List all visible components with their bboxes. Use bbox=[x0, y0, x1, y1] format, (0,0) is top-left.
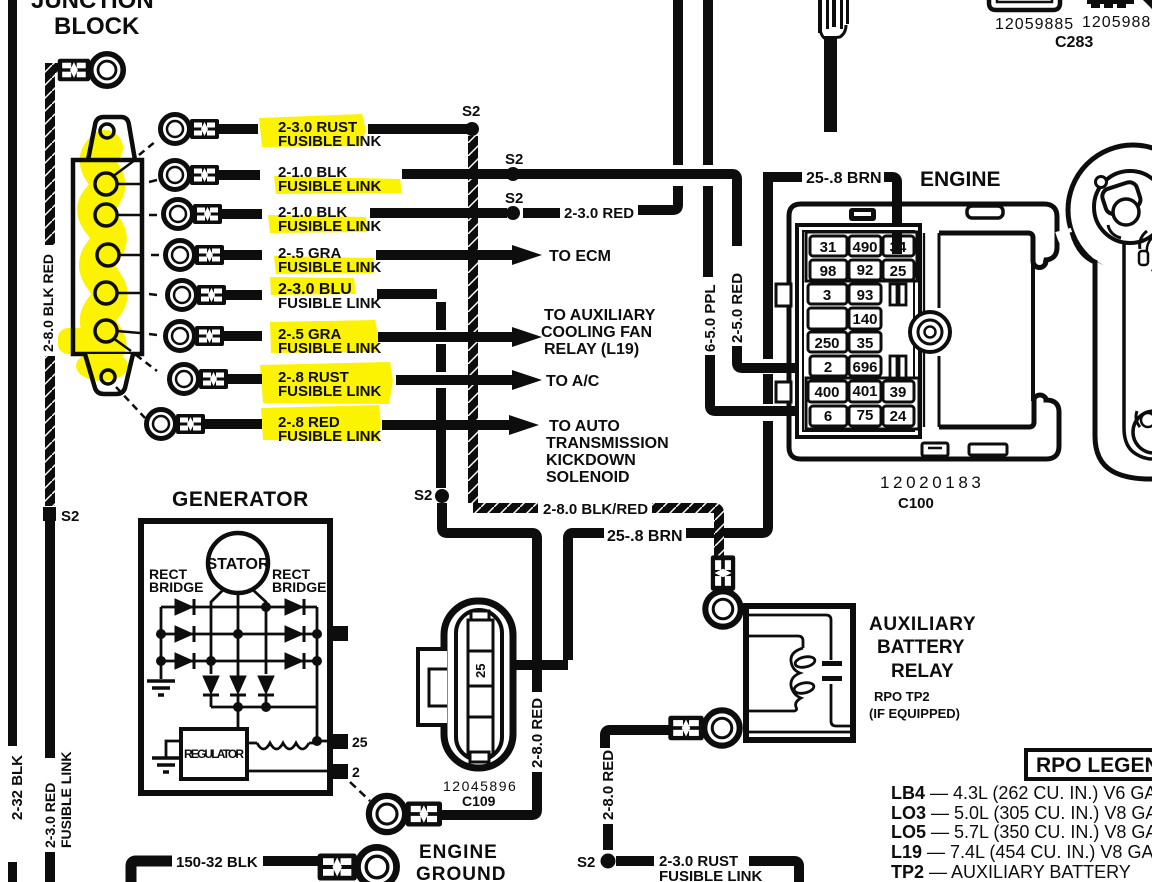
svg-text:FUSIBLE LINK: FUSIBLE LINK bbox=[58, 752, 74, 848]
wire vertical run to C283 (left) bbox=[673, 0, 683, 165]
wire 6-5.0 PPL down to C100 pin 6 bbox=[710, 355, 806, 411]
arrow TO AUXILIARY COOLING FAN RELAY bbox=[512, 327, 542, 347]
wire 25-.8 BRN big loop: C100 pin34 down left to C109 bbox=[686, 172, 768, 533]
wire 25-.8 BRN left of label down to C109 pin 25 bbox=[568, 533, 604, 660]
svg-text:98: 98 bbox=[820, 263, 837, 280]
grommet outline bbox=[1068, 145, 1152, 275]
svg-text:REGULATOR: REGULATOR bbox=[184, 747, 244, 761]
svg-text:TO A/C: TO A/C bbox=[546, 373, 600, 390]
ring terminal R5 bbox=[168, 281, 227, 310]
svg-text:S2: S2 bbox=[577, 854, 595, 871]
key shape inside head bbox=[1100, 180, 1142, 216]
svg-text:ENGINE: ENGINE bbox=[920, 168, 1001, 191]
svg-text:31: 31 bbox=[820, 239, 837, 256]
svg-text:2-8.0 RED: 2-8.0 RED bbox=[600, 750, 617, 820]
highlight row7 both lines bbox=[260, 362, 393, 404]
svg-text:75: 75 bbox=[857, 407, 874, 424]
highlight row2 line2 bbox=[274, 176, 402, 194]
trio diodes (pointing down) bbox=[203, 676, 274, 695]
wire 2-8.0 RED below junction bbox=[532, 670, 542, 692]
svg-text:250: 250 bbox=[814, 335, 839, 352]
svg-text:C283: C283 bbox=[1055, 34, 1093, 51]
svg-text:TP2 — AUXILIARY BATTERY: TP2 — AUXILIARY BATTERY bbox=[891, 862, 1131, 882]
svg-text:GENERATOR: GENERATOR bbox=[172, 488, 309, 511]
svg-text:93: 93 bbox=[857, 287, 874, 304]
svg-text:LO5 — 5.7L (350 CU. IN.) V8 GA: LO5 — 5.7L (350 CU. IN.) V8 GA bbox=[891, 822, 1152, 842]
C100 outer shell (C-shape) bbox=[789, 204, 1057, 447]
svg-text:25: 25 bbox=[473, 664, 488, 678]
svg-text:RELAY: RELAY bbox=[891, 661, 954, 682]
svg-text:2-8.0 RED: 2-8.0 RED bbox=[529, 698, 546, 768]
terminal BAT (blob) bbox=[330, 626, 348, 641]
wire 2-3.0 RED to upper connector run bbox=[638, 186, 678, 210]
wire stub and label 2-3.0 RED bbox=[523, 208, 560, 218]
wire 2-3.0 BLU bbox=[226, 294, 437, 295]
ring terminal R6 bbox=[166, 322, 225, 351]
highlighter marks (yellow) bbox=[58, 114, 402, 441]
striped harness end bbox=[818, 0, 849, 33]
svg-text:L19 — 7.4L (454 CU. IN.) V8 GA: L19 — 7.4L (454 CU. IN.) V8 GA bbox=[891, 842, 1152, 862]
highlight row3 line2 bbox=[268, 215, 367, 233]
top mounting tab bbox=[88, 117, 135, 160]
terminal circles bbox=[95, 173, 117, 195]
ring terminal (vertical, feeds relay top) bbox=[705, 555, 740, 626]
svg-text:25: 25 bbox=[352, 734, 368, 750]
wire bottom stub bbox=[45, 852, 55, 882]
highlight row4 line2 bbox=[274, 256, 374, 274]
svg-text:24: 24 bbox=[890, 408, 907, 425]
C283 connector stub (right) bbox=[1087, 0, 1134, 4]
wire 150-32 BLK corner bbox=[131, 861, 172, 882]
svg-text:S2: S2 bbox=[505, 190, 523, 207]
right rectifier diodes bbox=[285, 599, 304, 669]
connection ticks from terminals to ring terminals bbox=[112, 141, 159, 418]
bottom mounting tab bbox=[85, 354, 133, 394]
ground symbol (regulator) bbox=[152, 758, 180, 772]
C109 left bracket tabs bbox=[418, 649, 447, 725]
ring terminal R7 bbox=[170, 365, 229, 394]
field coil bbox=[257, 743, 309, 749]
svg-text:92: 92 bbox=[857, 262, 874, 279]
ring terminal R3 bbox=[164, 200, 223, 229]
generator internal wires bbox=[161, 589, 332, 771]
dashed lead from terminal 2 to ring bbox=[350, 782, 370, 801]
regulator ground bbox=[166, 741, 181, 757]
wire 2-.8 RUST to A/C bbox=[228, 379, 514, 380]
relay internals bbox=[749, 615, 850, 732]
C109 bottom key tab bbox=[470, 752, 489, 762]
svg-text:FUSIBLE LINK: FUSIBLE LINK bbox=[278, 295, 381, 312]
svg-text:C109: C109 bbox=[462, 793, 496, 809]
C109 top key tab bbox=[471, 611, 489, 620]
wire 2-5.0 RED corner from row-2 splice bbox=[732, 174, 737, 246]
wire from aux relay bottom ring to S2 bbox=[605, 730, 687, 748]
wire below harness end bbox=[824, 36, 837, 132]
svg-text:2-3.0 RED: 2-3.0 RED bbox=[42, 783, 58, 848]
wire vertical run to C283 (right) bbox=[703, 0, 713, 277]
svg-text:2-8.0 BLK/RED: 2-8.0 BLK/RED bbox=[543, 501, 648, 518]
wire 2-1.0 BLK bbox=[219, 174, 732, 175]
svg-text:BRIDGE: BRIDGE bbox=[272, 579, 326, 595]
svg-text:2: 2 bbox=[352, 764, 360, 780]
regulator output to terminal 2 bbox=[247, 770, 332, 773]
wire 2-32 BLK (far-left vertical bar) bbox=[8, 0, 17, 746]
svg-text:39: 39 bbox=[890, 384, 907, 401]
grommet inner wall bbox=[1124, 246, 1152, 459]
shell inner verticals bbox=[923, 233, 925, 427]
wire 25-.8 BRN top label run into C100 bbox=[763, 177, 897, 253]
svg-text:ENGINE: ENGINE bbox=[419, 842, 498, 863]
svg-text:JUNCTION: JUNCTION bbox=[31, 0, 154, 14]
svg-text:25-.8 BRN: 25-.8 BRN bbox=[607, 528, 683, 545]
wire segment below label, hatched bbox=[45, 356, 55, 506]
terminal 2 bbox=[330, 764, 348, 779]
wire crossing patches (solid over hatch) bbox=[467, 174, 479, 425]
top band slot (white) bbox=[967, 206, 1003, 218]
pin numbers bbox=[814, 239, 907, 425]
svg-text:KICKDOWN: KICKDOWN bbox=[546, 452, 636, 469]
grommet head circle bbox=[1094, 171, 1152, 243]
svg-text:6: 6 bbox=[824, 408, 832, 425]
svg-text:TRANSMISSION: TRANSMISSION bbox=[546, 435, 669, 452]
junction block highlighter squiggle bbox=[95, 148, 109, 350]
wire to engine ground terminal bbox=[263, 856, 324, 866]
svg-text:2-8.0 BLK RED: 2-8.0 BLK RED bbox=[40, 254, 56, 352]
legend box bbox=[1026, 750, 1152, 779]
junction dots bbox=[156, 602, 322, 746]
svg-text:12059885: 12059885 bbox=[995, 16, 1074, 33]
highlight row1 bbox=[259, 114, 366, 147]
svg-text:RPO TP2: RPO TP2 bbox=[874, 689, 930, 704]
svg-text:35: 35 bbox=[857, 335, 874, 352]
wire 2-5.0 RED down to C100 pin 2 bbox=[737, 346, 806, 368]
arrow TO A/C bbox=[512, 370, 542, 390]
svg-text:FUSIBLE LINK: FUSIBLE LINK bbox=[659, 868, 762, 882]
terminal 25 bbox=[330, 734, 348, 749]
wire 2-8.0 BLK RED (hatched, from junction-block ring terminal down) bbox=[50, 68, 63, 245]
svg-text:400: 400 bbox=[814, 384, 839, 401]
svg-text:LB4 — 4.3L (262 CU. IN.) V6 GA: LB4 — 4.3L (262 CU. IN.) V6 GA bbox=[891, 783, 1152, 803]
stator leads bbox=[211, 589, 224, 674]
svg-text:S2: S2 bbox=[61, 508, 79, 525]
wire 2-32 BLK lower stub bbox=[8, 862, 17, 882]
highlight row5 line1 bbox=[270, 277, 356, 295]
wire 2-.5 GRA to cooling fan relay bbox=[224, 336, 514, 337]
ground symbol (left bridge) bbox=[147, 681, 175, 695]
svg-text:C100: C100 bbox=[898, 495, 934, 512]
wire 2-.5 GRA to ECM bbox=[224, 250, 514, 260]
svg-text:TO AUTO: TO AUTO bbox=[549, 418, 620, 435]
ring terminal R8 bbox=[147, 410, 206, 439]
svg-text:TO AUXILIARY: TO AUXILIARY bbox=[544, 307, 656, 324]
ring terminal R1 bbox=[161, 115, 220, 144]
svg-text:25-.8 BRN: 25-.8 BRN bbox=[806, 170, 882, 187]
coil lead bbox=[247, 741, 332, 743]
C109 terminal slot column bbox=[468, 620, 493, 755]
svg-text:12059888: 12059888 bbox=[1082, 14, 1152, 31]
svg-text:490: 490 bbox=[852, 239, 877, 256]
svg-text:BRIDGE: BRIDGE bbox=[149, 579, 203, 595]
svg-text:LO3 — 5.0L (305 CU. IN.) V8 GA: LO3 — 5.0L (305 CU. IN.) V8 GA bbox=[891, 803, 1152, 823]
wire stub to S2 bbox=[603, 824, 613, 850]
stator circle bbox=[208, 533, 268, 593]
bottom band slots bbox=[922, 443, 948, 456]
legend entries bbox=[891, 783, 1152, 882]
ring terminal feeding C109 leg bbox=[369, 796, 442, 832]
terminal block bbox=[797, 225, 920, 437]
three phase rails bbox=[161, 606, 317, 609]
wire 2-3.0 RUST right of splice bbox=[616, 856, 654, 866]
ring terminal R2 bbox=[161, 161, 220, 190]
wire 2-8.0 BLK/RED (hatched horizontal) bbox=[473, 503, 538, 513]
C109 body bbox=[444, 601, 513, 768]
left bus + ground drop bbox=[160, 607, 163, 679]
wire from S2 down to corner then right bbox=[442, 503, 537, 667]
svg-text:140: 140 bbox=[852, 311, 877, 328]
ring terminal at junction block feed (ring right, crimp left) bbox=[58, 54, 124, 86]
C283 connector stub (left) bbox=[989, 0, 1060, 10]
highlight row6 both lines bbox=[270, 320, 378, 353]
C100 left edge tabs bbox=[776, 284, 791, 306]
svg-text:S2: S2 bbox=[414, 487, 432, 504]
svg-text:STATOR: STATOR bbox=[206, 556, 270, 573]
arcs right of head bbox=[1140, 231, 1147, 249]
right bus bbox=[316, 607, 319, 741]
ring terminal ENGINE GROUND (ring right, crimp left) bbox=[318, 847, 397, 882]
svg-text:GROUND: GROUND bbox=[416, 864, 506, 882]
arrow TO ECM bbox=[512, 245, 542, 265]
block rectangle bbox=[73, 160, 142, 354]
svg-text:2-3.0 RED: 2-3.0 RED bbox=[564, 205, 634, 222]
wire 2-3.0 RUST bbox=[219, 124, 468, 134]
relay contact bars bbox=[822, 661, 842, 666]
junction block body bbox=[73, 117, 142, 394]
top band key slot (dark) bbox=[849, 208, 876, 221]
ring terminal R4 bbox=[166, 241, 225, 270]
svg-text:696: 696 bbox=[852, 359, 877, 376]
bolt boss bbox=[910, 312, 950, 352]
relay box bbox=[746, 606, 853, 740]
svg-text:2-5.0 RED: 2-5.0 RED bbox=[729, 273, 746, 343]
wire hatched vertical from S2 down to 2-8.0 BLK/RED run bbox=[468, 136, 478, 503]
wire 2-8.0 RED down to ring terminal bbox=[433, 772, 537, 815]
svg-text:TO ECM: TO ECM bbox=[549, 248, 611, 265]
svg-text:6-5.0 PPL: 6-5.0 PPL bbox=[702, 284, 719, 352]
svg-text:12020183: 12020183 bbox=[880, 473, 984, 492]
regulator bbox=[181, 729, 247, 779]
svg-text:(IF EQUIPPED): (IF EQUIPPED) bbox=[869, 706, 960, 721]
wire 25-.8 BRN overlay into pin 34 bbox=[892, 230, 902, 254]
svg-text:RPO LEGEND: RPO LEGEND bbox=[1036, 754, 1152, 777]
splice S2 on 2-3.0 BLU drop bbox=[436, 302, 446, 488]
generator box bbox=[141, 521, 330, 793]
lower diode bus bbox=[211, 696, 317, 729]
svg-text:S2: S2 bbox=[505, 151, 523, 168]
group boxes bbox=[806, 232, 917, 281]
grommet bottom detail bbox=[1133, 411, 1152, 453]
svg-text:BATTERY: BATTERY bbox=[877, 637, 965, 658]
wire below S2 down to label gap bbox=[45, 521, 55, 758]
svg-text:RELAY (L19): RELAY (L19) bbox=[544, 341, 639, 358]
svg-text:2-32 BLK: 2-32 BLK bbox=[9, 755, 26, 820]
wire corner down to bottom edge bbox=[749, 861, 799, 882]
svg-text:COOLING FAN: COOLING FAN bbox=[541, 324, 652, 341]
svg-text:150-32 BLK: 150-32 BLK bbox=[176, 854, 258, 871]
key slots inside block bbox=[890, 284, 906, 378]
svg-text:BLOCK: BLOCK bbox=[54, 13, 140, 40]
left rectifier diodes bbox=[175, 599, 194, 669]
highlight row8 both lines bbox=[261, 405, 381, 441]
svg-text:AUXILIARY: AUXILIARY bbox=[869, 614, 976, 635]
ring terminal (relay bottom, crimp left) bbox=[668, 710, 739, 745]
svg-text:3: 3 bbox=[823, 287, 831, 304]
arrow TO AUTO TRANSMISSION KICKDOWN SOLENOID bbox=[509, 415, 539, 435]
wire 2-.8 RED to kickdown solenoid bbox=[205, 424, 511, 425]
svg-text:401: 401 bbox=[852, 383, 877, 400]
corner mark top right bbox=[1143, 0, 1152, 9]
splice S2 (square) on left wire bbox=[43, 507, 56, 521]
wire 2-8.0 BLK/RED right segment, corner down to aux relay ring bbox=[652, 508, 719, 564]
svg-text:S2: S2 bbox=[462, 103, 480, 120]
svg-text:12045896: 12045896 bbox=[443, 778, 517, 794]
svg-text:25: 25 bbox=[890, 263, 907, 280]
wire 2-1.0 BLK (second) bbox=[222, 213, 507, 214]
svg-text:2: 2 bbox=[824, 359, 832, 376]
svg-text:SOLENOID: SOLENOID bbox=[546, 469, 630, 486]
terminal cells bbox=[808, 236, 914, 426]
wire C109 pin 25 horizontal junction bbox=[490, 660, 568, 670]
